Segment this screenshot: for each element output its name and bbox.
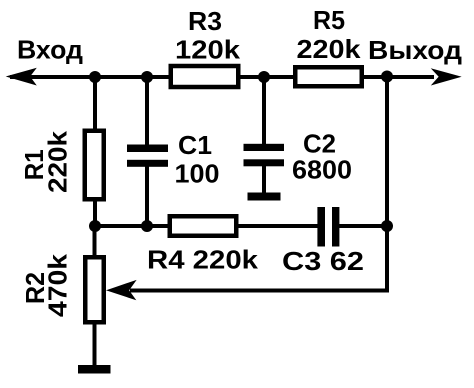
svg-text:100: 100 [175,159,220,189]
svg-text:220k: 220k [43,130,73,193]
wire vertical C2 top stub [262,77,266,145]
potentiometer R2 body [85,257,104,322]
ground bar below C2 [248,193,281,201]
svg-text:C3 62: C3 62 [282,246,364,276]
input arrow (left) [8,69,36,85]
svg-text:120k: 120k [175,35,241,65]
wire vertical R1 top stub [93,77,97,131]
wire vertical R1 bottom stub [93,199,97,226]
node C3 right junction [381,220,393,232]
resistor R4 [170,216,237,236]
output arrow (right) [432,69,460,84]
svg-text:6800: 6800 [292,155,352,185]
ground bar below R2 [78,365,111,374]
svg-text:R4 220k: R4 220k [147,245,259,275]
wire vertical C2 to ground stub [262,164,266,194]
node input junction (R1 tap) [89,71,101,83]
node middle bus left (R1/R2 junction) [89,220,101,232]
svg-text:470k: 470k [43,253,73,317]
wire vertical C1 top stub [145,77,149,146]
svg-text:Выход: Выход [368,35,463,65]
wire vertical C3 node down to feedback corner [385,226,389,291]
svg-text:220k: 220k [297,34,362,64]
node output junction [381,71,393,83]
svg-text:Вход: Вход [17,35,84,65]
capacitor C1 plates [127,145,168,153]
resistor R1 [85,131,104,200]
capacitor C2 plates [244,144,285,151]
wire vertical C1 bottom stub [145,165,149,226]
potentiometer R2 wiper arrow [108,281,136,300]
wire vertical R2 bottom stub [93,322,97,366]
node C1 tap on top bus [141,71,153,83]
wire middle horizontal bus left of C3 [95,224,319,228]
node between R3 and R5 (C2 tap) [258,71,270,83]
wire middle horizontal segment C3 to right node [338,224,387,228]
node middle bus C1 junction [141,220,153,232]
wire horizontal feedback to R2 wiper [130,289,389,293]
wire vertical output node down to C3 node [385,77,389,226]
wire vertical R2 top stub [93,226,97,257]
svg-text:R5: R5 [313,5,345,35]
wire top horizontal bus (input to output) [10,75,434,79]
svg-text:R3: R3 [188,6,222,36]
resistor R5 [295,67,362,86]
svg-text:C1: C1 [178,130,212,160]
capacitor C3 plates [317,207,325,247]
resistor R3 [171,66,239,87]
